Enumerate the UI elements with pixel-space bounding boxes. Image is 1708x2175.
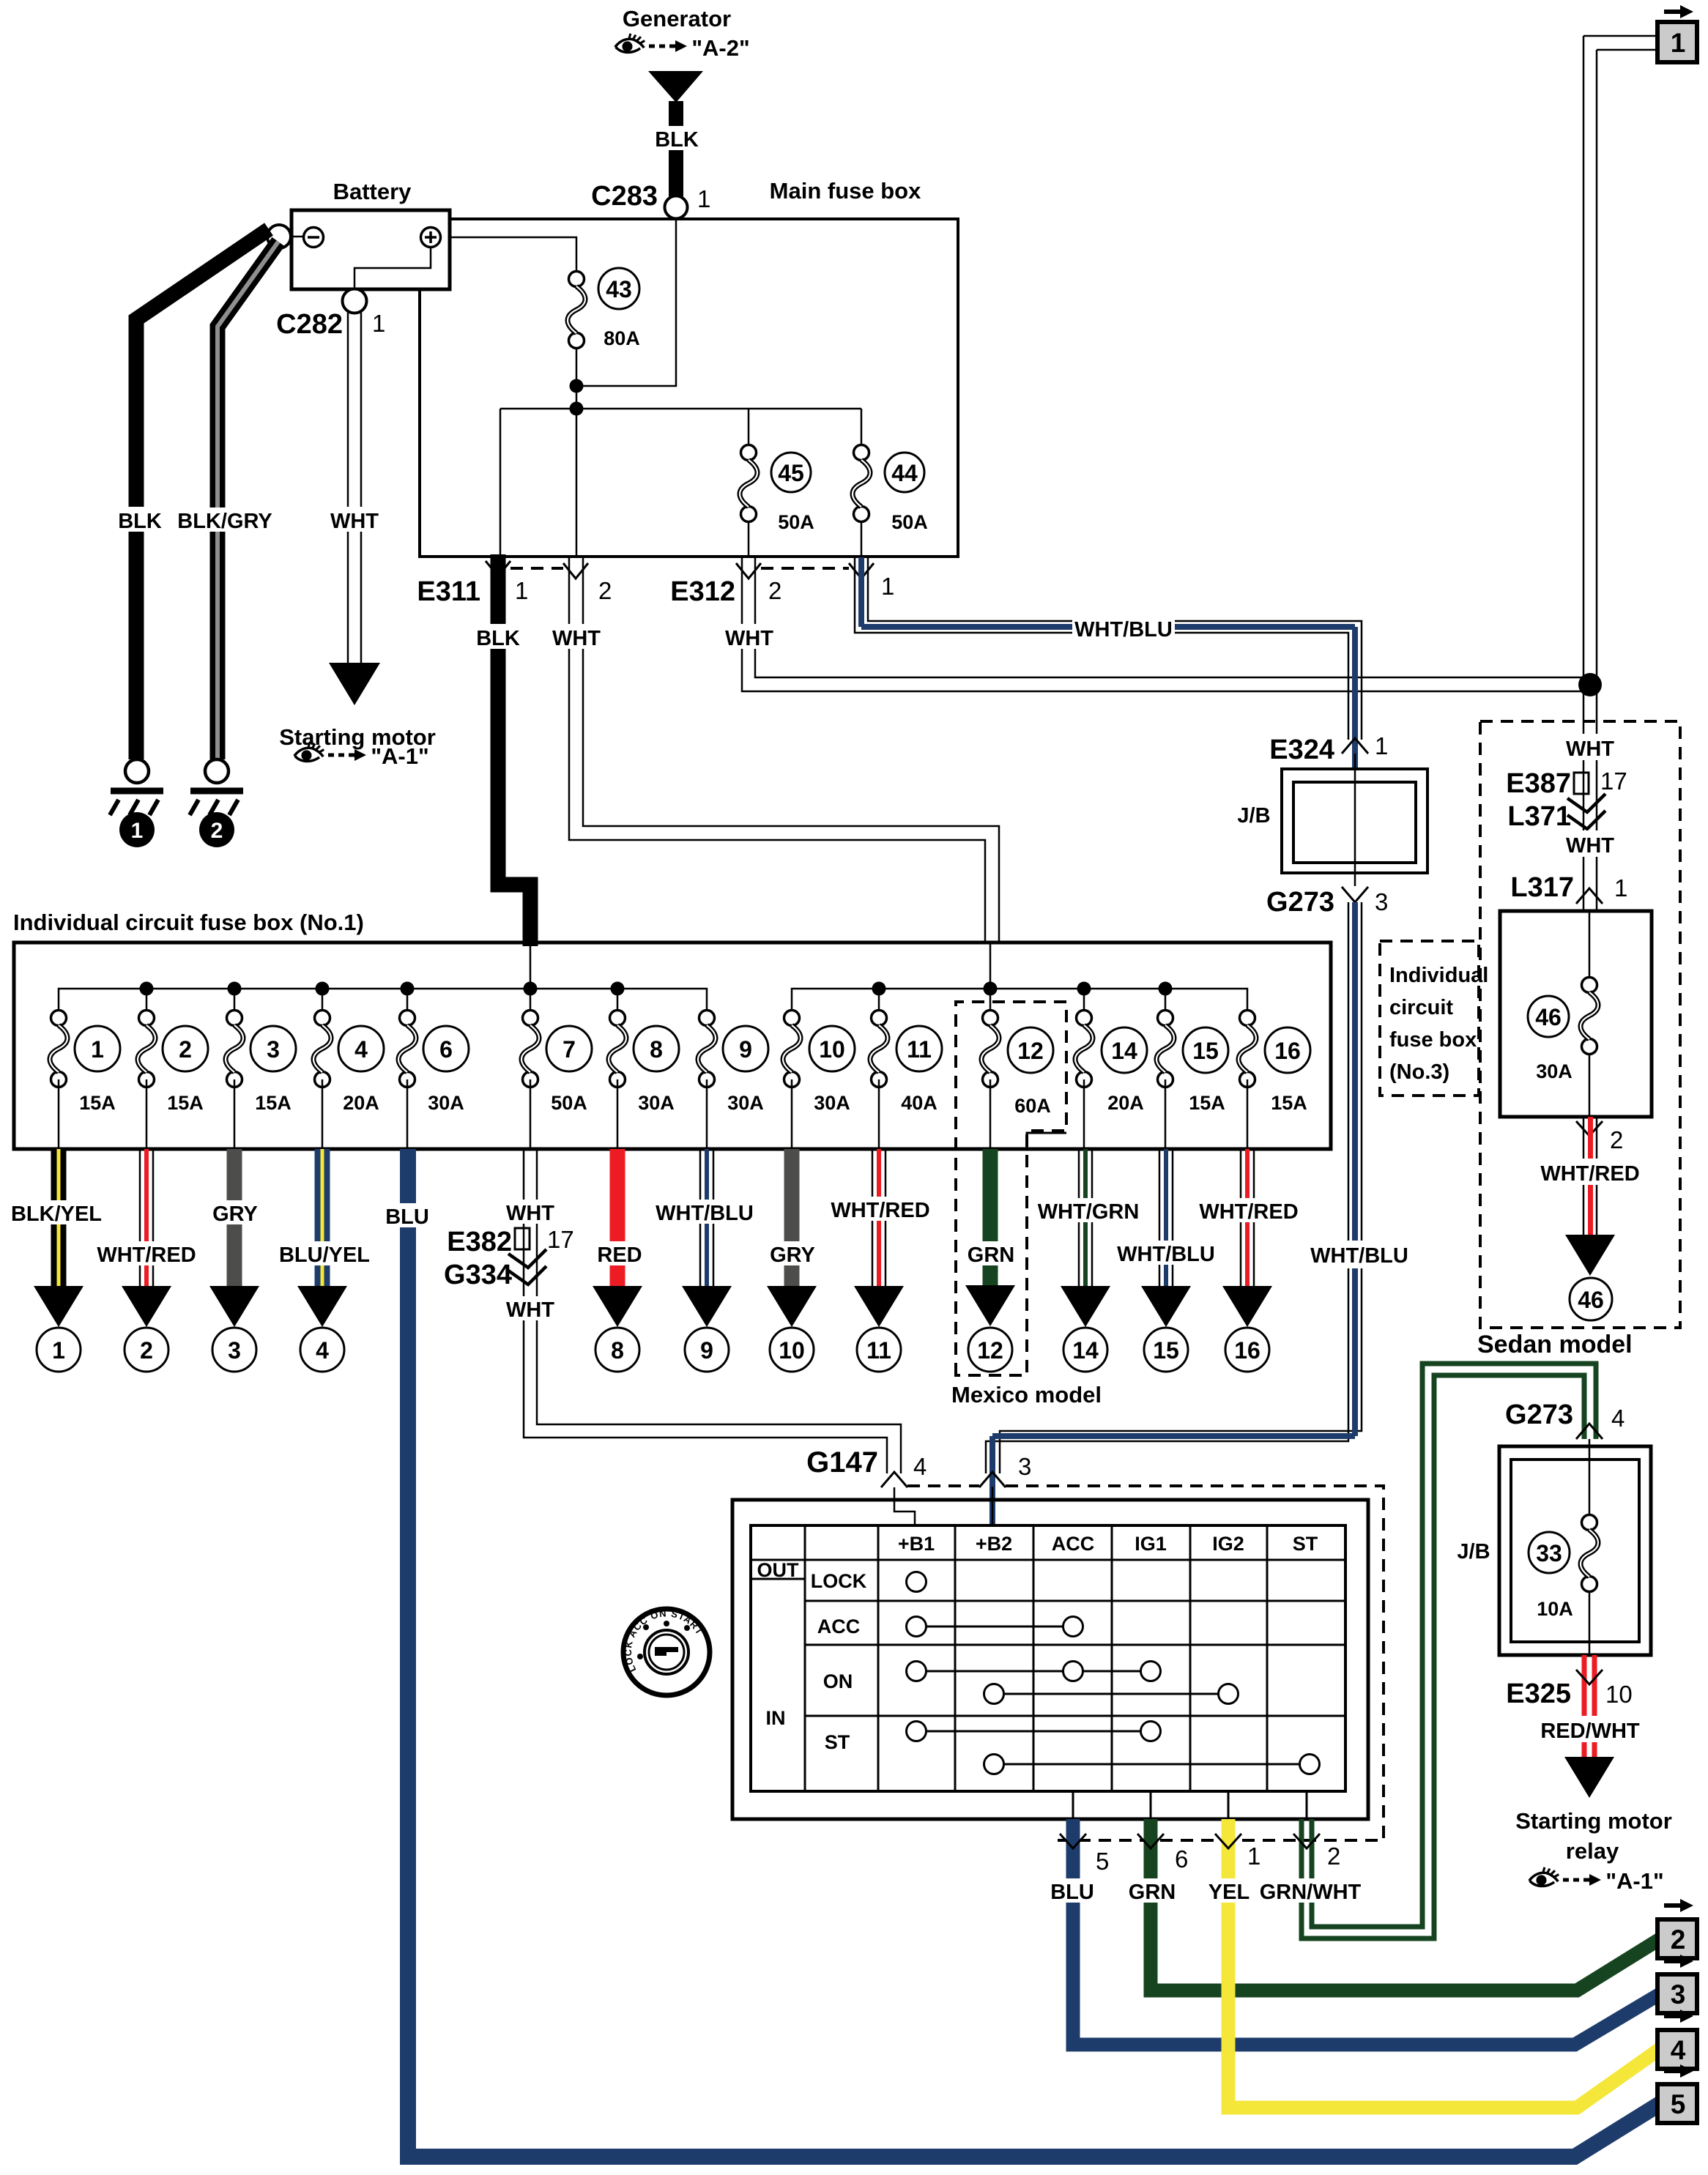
svg-text:2: 2: [1327, 1843, 1340, 1870]
svg-text:6: 6: [1175, 1845, 1188, 1873]
svg-text:WHT: WHT: [330, 510, 379, 533]
starting motor relay label: [1515, 1808, 1672, 1864]
connector L317 pin 1 symbol: [1576, 888, 1603, 904]
label WHT: [548, 624, 605, 650]
wire WHT/BLU G273-3 to G147-3: [986, 902, 1362, 1473]
arrow to circuit 9: [682, 1286, 732, 1327]
svg-text:14: 14: [1072, 1337, 1099, 1364]
fuse 9 number: [723, 1026, 768, 1071]
fuse box No.3: [1500, 911, 1652, 1117]
connector fuse box No.3 pin 2 symbol: [1576, 1121, 1603, 1136]
svg-text:BLK: BLK: [118, 510, 162, 533]
label WHT/RED: [1197, 1198, 1301, 1224]
svg-text:WHT: WHT: [1566, 834, 1614, 858]
svg-text:WHT: WHT: [552, 627, 601, 650]
connector box 1: [1657, 22, 1697, 62]
svg-text:G334: G334: [444, 1260, 512, 1290]
wire GRN fuse 12 output: [983, 1149, 998, 1285]
svg-text:WHT/BLU: WHT/BLU: [656, 1202, 754, 1225]
wire WHT/BLU fuse 9 output: [700, 1149, 713, 1286]
svg-text:3: 3: [1018, 1453, 1031, 1480]
svg-text:15A: 15A: [1189, 1092, 1225, 1114]
svg-text:ST: ST: [825, 1731, 850, 1753]
wire BLU/YEL fuse 4 output: [315, 1149, 330, 1286]
svg-text:3: 3: [267, 1036, 280, 1063]
label WHT/RED: [1538, 1159, 1642, 1186]
label RED: [595, 1241, 645, 1267]
svg-text:50A: 50A: [778, 511, 814, 533]
svg-text:9: 9: [739, 1036, 752, 1063]
svg-text:11: 11: [866, 1337, 891, 1364]
svg-text:10: 10: [819, 1036, 845, 1063]
ignition switch outer box: [732, 1500, 1368, 1819]
svg-text:14: 14: [1111, 1038, 1137, 1064]
node circuit 10: [770, 1328, 814, 1372]
Mexico model dashed outline: [956, 1002, 1066, 1375]
label BLK: [116, 507, 164, 533]
wire into ignition switch +B2: [992, 1487, 994, 1525]
svg-text:E324: E324: [1269, 735, 1334, 765]
svg-text:ON: ON: [823, 1670, 853, 1692]
wire WHT from connector box 1: [1583, 36, 1657, 911]
wire BLK/GRY battery negative to ground 2: [218, 242, 278, 759]
wire G147-4 into switch: [894, 1487, 915, 1525]
connector C282 terminal: [343, 289, 367, 313]
fuse 16 number: [1265, 1027, 1310, 1073]
wire RED/WHT E325 output: [1584, 1655, 1594, 1757]
fuse 1: [50, 989, 1165, 1149]
arrow to circuit 10: [767, 1286, 817, 1327]
wire BLK/YEL fuse 1 output: [51, 1149, 67, 1286]
node junction below fuse 43: [570, 379, 584, 393]
fuse 46: [1581, 978, 1598, 1055]
svg-text:1: 1: [1247, 1843, 1260, 1870]
svg-text:J/B: J/B: [1457, 1540, 1490, 1564]
fuse 4: [313, 1011, 331, 1150]
svg-text:"A-1": "A-1": [371, 743, 428, 769]
wire GRN IG1 output to connector box 2: [1151, 1819, 1660, 1990]
svg-text:fuse box: fuse box: [1389, 1028, 1477, 1052]
svg-text:4: 4: [316, 1337, 329, 1364]
fuse 10: [783, 1011, 801, 1150]
connector pin 1 symbol: [1215, 1834, 1241, 1848]
node circuit 3: [212, 1328, 256, 1372]
switch output pins: [1073, 1791, 1307, 1819]
svg-text:2: 2: [211, 819, 223, 843]
connector pin 2 symbol: [1293, 1834, 1320, 1848]
label WHT/RED: [828, 1197, 932, 1222]
ground 1: [110, 759, 163, 847]
svg-text:2: 2: [1671, 1925, 1686, 1955]
wire BLK from generator: [669, 101, 683, 196]
starting motor see-reference eye "A-1": [294, 743, 429, 769]
svg-text:11: 11: [907, 1036, 932, 1063]
fuse 3 number: [250, 1026, 296, 1071]
arrow to circuit 11: [854, 1286, 904, 1327]
fuse 2 number: [163, 1026, 208, 1071]
generator label: [623, 6, 731, 31]
arrow to circuit 1: [34, 1286, 83, 1327]
svg-text:IN: IN: [766, 1707, 786, 1729]
wire RED fuse 8 output: [610, 1149, 625, 1286]
svg-text:15: 15: [1153, 1337, 1179, 1364]
wire WHT E312-2 to right junction: [742, 557, 1590, 691]
wire YEL IG2 output to connector box 4: [1228, 1819, 1660, 2108]
svg-text:E325: E325: [1506, 1678, 1571, 1709]
svg-text:10A: 10A: [1537, 1598, 1573, 1620]
fuse 8 number: [634, 1026, 679, 1071]
svg-text:WHT: WHT: [725, 627, 773, 650]
svg-text:2: 2: [598, 577, 612, 604]
svg-text:4: 4: [1611, 1405, 1625, 1432]
wire WHT/RED fuse 11 output: [872, 1149, 885, 1286]
label BLK/GRY: [174, 508, 275, 533]
fuse 15: [1156, 1011, 1174, 1150]
table column lines: [805, 1525, 1267, 1791]
connector E312 pin 1 symbol: [849, 563, 874, 579]
wire internal bus of main fuse box: [500, 409, 861, 557]
connector box 1 arrow: [1664, 5, 1693, 18]
svg-text:RED: RED: [597, 1243, 642, 1267]
svg-text:30A: 30A: [428, 1092, 464, 1114]
label WHT/BLU: [1115, 1241, 1217, 1266]
fuse 1 number: [75, 1026, 120, 1071]
svg-text:15A: 15A: [255, 1092, 292, 1114]
connector C283 terminal: [665, 196, 688, 219]
connector box 5 arrow: [1664, 2064, 1693, 2078]
node circuit 46: [1570, 1278, 1612, 1320]
label BLK/YEL: [7, 1200, 105, 1226]
arrow to circuit 3: [209, 1286, 259, 1327]
svg-text:BLK: BLK: [476, 627, 520, 650]
connector G273 pin 3 symbol: [1342, 887, 1368, 902]
svg-text:GRN: GRN: [1129, 1881, 1176, 1904]
fuse 11: [870, 1011, 888, 1150]
label GRY: [768, 1241, 817, 1267]
svg-text:Individual circuit fuse box (N: Individual circuit fuse box (No.1): [13, 910, 364, 935]
svg-text:WHT: WHT: [506, 1202, 554, 1225]
fuse 9: [698, 1011, 716, 1150]
svg-text:30A: 30A: [638, 1092, 675, 1114]
svg-text:1: 1: [1671, 28, 1686, 58]
svg-text:17: 17: [1600, 767, 1627, 795]
fuse 6: [398, 1011, 416, 1150]
label BLU/YEL: [275, 1241, 374, 1267]
svg-text:1: 1: [131, 819, 144, 843]
wire bus 1 (fuses 1-9): [59, 989, 707, 1018]
label WHT: [502, 1200, 559, 1225]
fuse 45 number: [771, 453, 811, 492]
wire GRN/WHT ST output to G273-4: [1302, 1364, 1596, 1938]
connector G334 chevrons: [508, 1249, 546, 1284]
wire bus 2 (fuses 10-16): [792, 989, 1247, 1018]
wire battery plus to fuse 43: [440, 237, 576, 272]
fuse 44 number: [885, 453, 924, 492]
svg-text:E382: E382: [447, 1227, 512, 1257]
svg-text:relay: relay: [1566, 1838, 1619, 1864]
label RED/WHT: [1538, 1716, 1642, 1743]
individual circuit fuse box No.1: [14, 943, 1331, 1149]
fuse 46 number: [1528, 996, 1569, 1037]
fuse 14 number: [1102, 1027, 1147, 1073]
svg-text:+B1: +B1: [898, 1533, 935, 1555]
svg-text:2: 2: [768, 577, 781, 604]
svg-text:E312: E312: [670, 576, 735, 607]
svg-text:E387: E387: [1506, 768, 1571, 799]
svg-text:WHT/BLU: WHT/BLU: [1117, 1243, 1215, 1266]
svg-text:1: 1: [91, 1036, 104, 1063]
generator see-reference eye "A-2": [615, 34, 750, 61]
wire WHT C282 to starting motor: [348, 313, 361, 663]
svg-text:Battery: Battery: [333, 179, 412, 204]
fuse 16: [1239, 1011, 1256, 1150]
node circuit 1: [37, 1328, 81, 1372]
wire WHT/RED fuse 2 output: [140, 1149, 153, 1286]
connector G147 pin 4 symbol: [881, 1472, 907, 1487]
svg-text:G273: G273: [1266, 887, 1334, 918]
svg-text:E311: E311: [417, 576, 480, 607]
svg-text:16: 16: [1274, 1038, 1301, 1064]
svg-text:1: 1: [1375, 732, 1388, 759]
label BLU: [1049, 1878, 1096, 1904]
svg-text:LOCK: LOCK: [811, 1570, 867, 1592]
svg-text:ACC: ACC: [1052, 1533, 1095, 1555]
svg-text:circuit: circuit: [1389, 996, 1453, 1019]
connector box 2: [1657, 1919, 1697, 1958]
svg-text:20A: 20A: [343, 1092, 379, 1114]
connector box 3: [1657, 1974, 1697, 2013]
battery plus symbol: [421, 228, 441, 248]
label WHT/RED: [94, 1241, 198, 1267]
svg-text:OUT: OUT: [757, 1559, 800, 1581]
label YEL: [1206, 1878, 1252, 1904]
wire jog near fuse 12: [1027, 1133, 1066, 1149]
svg-text:15: 15: [1192, 1038, 1219, 1064]
svg-text:GRY: GRY: [770, 1243, 815, 1267]
svg-text:30A: 30A: [727, 1092, 764, 1114]
wire BLK battery negative to ground 1: [136, 229, 269, 759]
label WHT: [326, 507, 383, 533]
connector box 5: [1657, 2084, 1697, 2123]
connector L371 chevrons: [1567, 794, 1605, 829]
node bus taps: [140, 982, 625, 996]
svg-text:Starting motor: Starting motor: [1515, 1808, 1672, 1834]
svg-text:1: 1: [515, 577, 528, 604]
label GRN/WHT: [1257, 1878, 1364, 1904]
node circuit 12: [968, 1328, 1012, 1372]
svg-text:Sedan model: Sedan model: [1477, 1331, 1633, 1358]
svg-text:1: 1: [881, 573, 894, 600]
wire BLK inside fuse box No.1: [530, 943, 532, 989]
svg-text:46: 46: [1535, 1004, 1562, 1030]
wire WHT/RED fuse 16 output: [1241, 1149, 1254, 1286]
contacts ST row B2-ST: [984, 1755, 1320, 1774]
svg-text:1: 1: [52, 1337, 65, 1364]
contacts ON row B2-IG2: [984, 1684, 1239, 1704]
wire GRY fuse 3 output: [227, 1149, 242, 1286]
svg-text:6: 6: [439, 1036, 453, 1063]
svg-text:1: 1: [372, 310, 385, 337]
connector pin 5 symbol: [1060, 1834, 1086, 1848]
svg-text:20A: 20A: [1107, 1092, 1144, 1114]
svg-text:15A: 15A: [79, 1092, 116, 1114]
svg-text:43: 43: [606, 276, 632, 302]
fuse 4 number: [338, 1026, 384, 1071]
fuse 43 number: [598, 268, 639, 309]
node circuit 15: [1144, 1328, 1188, 1372]
svg-text:WHT/GRN: WHT/GRN: [1038, 1200, 1140, 1224]
wire fuse 43 to E311-2: [576, 349, 578, 557]
svg-text:WHT/RED: WHT/RED: [831, 1199, 929, 1222]
svg-text:8: 8: [650, 1036, 663, 1063]
label GRY: [210, 1200, 260, 1226]
svg-text:RED/WHT: RED/WHT: [1540, 1719, 1640, 1743]
node junction WHT: [1578, 673, 1602, 696]
connector E324 pin 1 symbol: [1342, 738, 1368, 754]
junction box J/B E324: [1282, 769, 1427, 873]
svg-text:15A: 15A: [1271, 1092, 1307, 1114]
svg-text:YEL: YEL: [1208, 1881, 1250, 1904]
wire WHT feed inside fuse box No.1: [989, 943, 992, 989]
fuse 43: [568, 272, 585, 349]
generator arrow: [648, 71, 703, 103]
svg-text:"A-1": "A-1": [1605, 1868, 1663, 1894]
battery negative terminal: [267, 225, 291, 248]
svg-text:BLU: BLU: [1050, 1881, 1094, 1904]
svg-text:ST: ST: [1293, 1533, 1318, 1555]
label WHT: [1562, 830, 1619, 858]
svg-text:4: 4: [1671, 2035, 1686, 2065]
svg-text:BLU: BLU: [385, 1205, 429, 1229]
svg-text:1: 1: [1614, 874, 1627, 901]
ignition switch dashed outline: [907, 1486, 1384, 1840]
svg-text:WHT: WHT: [1566, 737, 1614, 761]
connector pin 6 symbol: [1137, 1834, 1164, 1848]
arrow to circuit 16: [1222, 1286, 1272, 1327]
arrow to circuit 4: [297, 1286, 347, 1327]
svg-text:WHT/RED: WHT/RED: [97, 1243, 196, 1267]
connector E311 pin 1 symbol: [486, 561, 510, 576]
fuse 14: [1075, 1011, 1093, 1150]
label BLK: [474, 624, 522, 650]
svg-text:L371: L371: [1507, 801, 1571, 832]
svg-text:80A: 80A: [604, 327, 640, 349]
svg-text:30A: 30A: [1536, 1060, 1573, 1082]
svg-text:BLK: BLK: [655, 128, 699, 152]
label WHT: [502, 1296, 559, 1322]
wire BLU fuse 6 to connector box 5: [408, 1149, 1660, 2157]
svg-text:60A: 60A: [1014, 1095, 1051, 1117]
wire WHT/RED fuse 46 output: [1583, 1117, 1597, 1235]
wire BLU ACC output to connector box 3: [1073, 1819, 1660, 2045]
svg-text:+B2: +B2: [976, 1533, 1012, 1555]
svg-text:5: 5: [1671, 2089, 1686, 2119]
svg-text:8: 8: [611, 1337, 624, 1364]
fuse 10 number: [809, 1026, 855, 1071]
svg-text:C282: C282: [276, 309, 343, 340]
svg-text:12: 12: [977, 1337, 1003, 1364]
wire GRY fuse 10 output: [784, 1149, 800, 1286]
svg-text:3: 3: [1671, 1979, 1686, 2009]
svg-text:IG2: IG2: [1212, 1533, 1244, 1555]
fuse 12 number: [1008, 1027, 1053, 1073]
key switch icon: [623, 1607, 710, 1695]
contacts ACC row: [907, 1617, 1083, 1637]
connector box 4: [1657, 2030, 1697, 2069]
fuse 15 number: [1183, 1027, 1228, 1073]
connector E382 pin 17 symbol: [515, 1228, 530, 1249]
contacts ST row B1-IG1: [907, 1722, 1161, 1741]
fuse 33: [1581, 1515, 1598, 1592]
wire C283 lead: [576, 219, 676, 386]
arrow to circuit 2: [122, 1286, 171, 1327]
svg-text:45: 45: [778, 460, 804, 486]
arrow to circuit 8: [593, 1286, 642, 1327]
svg-text:BLK/YEL: BLK/YEL: [11, 1202, 102, 1226]
svg-text:WHT/BLU: WHT/BLU: [1074, 618, 1173, 642]
starting motor relay arrow: [1564, 1757, 1614, 1798]
svg-text:WHT/RED: WHT/RED: [1199, 1200, 1298, 1224]
svg-text:1: 1: [697, 185, 710, 212]
fuse 44: [853, 445, 870, 522]
fuse 12: [981, 1011, 999, 1150]
connector E311 pin 2 symbol: [563, 563, 588, 579]
fuse 2: [138, 1011, 155, 1150]
svg-text:(No.3): (No.3): [1389, 1060, 1449, 1084]
svg-text:WHT/RED: WHT/RED: [1540, 1162, 1639, 1186]
label BLU: [384, 1203, 431, 1229]
main fuse box: [420, 219, 958, 557]
arrow to circuit 14: [1061, 1286, 1110, 1327]
node circuit 4: [300, 1328, 344, 1372]
svg-text:Main fuse box: Main fuse box: [770, 178, 921, 204]
svg-text:WHT: WHT: [506, 1298, 554, 1322]
wire BLK E311-1 to fuse box No.1: [498, 554, 530, 946]
label WHT/BLU: [1308, 1241, 1411, 1268]
fuse 6 number: [423, 1026, 469, 1071]
fuse 3: [226, 1011, 243, 1150]
node circuit 8: [595, 1328, 639, 1372]
connector box 4 arrow: [1664, 2009, 1693, 2023]
wire WHT/BLU E312-1 to E324: [855, 557, 1362, 740]
node circuit 9: [685, 1328, 729, 1372]
fuse 33 number: [1529, 1532, 1570, 1573]
svg-text:30A: 30A: [814, 1092, 850, 1114]
connector box 2 arrow: [1664, 1899, 1693, 1912]
sedan model dashed outline: [1480, 721, 1680, 1328]
svg-text:WHT/BLU: WHT/BLU: [1310, 1244, 1408, 1268]
arrow to circuit 15: [1141, 1286, 1191, 1327]
wire WHT/BLU fuse 15 output: [1159, 1149, 1173, 1286]
svg-text:2: 2: [179, 1036, 192, 1063]
connector box 3 arrow: [1664, 1955, 1693, 1968]
table row lines: [751, 1560, 1345, 1716]
connector E312 dashed link: [761, 567, 849, 570]
wire through J/B: [1354, 754, 1356, 886]
svg-text:44: 44: [891, 460, 918, 486]
fuse 8: [609, 1011, 626, 1150]
svg-text:J/B: J/B: [1237, 804, 1270, 828]
svg-text:Individual: Individual: [1389, 964, 1488, 987]
connector E312 pin 2 symbol: [736, 563, 761, 579]
fuse 11 number: [896, 1026, 942, 1071]
svg-text:16: 16: [1234, 1337, 1260, 1364]
node circuit 16: [1225, 1328, 1269, 1372]
svg-text:"A-2": "A-2": [691, 35, 749, 61]
svg-text:BLU/YEL: BLU/YEL: [279, 1243, 370, 1267]
svg-text:G147: G147: [806, 1446, 878, 1479]
svg-text:10: 10: [1605, 1681, 1633, 1708]
